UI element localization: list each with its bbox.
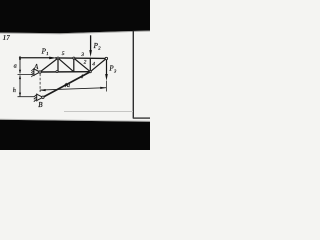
dimension line a (vertical) <box>19 56 21 73</box>
wire: diagonal T1 to B2 <box>58 58 74 72</box>
bottom black band <box>0 120 150 150</box>
node B3 junction <box>89 71 91 73</box>
dimension line 4a with arrowheads <box>40 88 106 90</box>
wire: top chord (T1 to T4) with P1 line extension <box>20 57 50 59</box>
svg-text:A: A <box>33 63 39 71</box>
node T4 <box>105 57 107 59</box>
dimension a (vertical, truss height) and h (A to B drop) <box>18 56 35 97</box>
force P3 arrow with extension to dimension line <box>106 59 108 75</box>
dimension 4a: dashed extension line below A <box>39 74 41 93</box>
svg-text:1: 1 <box>81 74 84 80</box>
paper background <box>0 0 150 150</box>
node B <box>42 96 44 98</box>
svg-text:h: h <box>13 87 16 94</box>
wire: diagonal 1, B to B3 <box>43 72 90 98</box>
wire: bottom chord A to B3 <box>40 71 90 73</box>
table rule horizontal bottom-right <box>133 117 150 118</box>
top black band <box>0 0 150 33</box>
svg-text:4a: 4a <box>64 82 70 89</box>
svg-text:2: 2 <box>84 59 87 65</box>
node A <box>39 71 41 73</box>
wire: diagonal A to T1 <box>40 58 58 72</box>
wire: diagonal 2, T2 to B3 <box>74 58 91 72</box>
support A (pin on left wall) <box>31 68 40 77</box>
dimension line h (vertical) <box>19 75 21 96</box>
extension line mid at bottom chord level <box>18 73 34 75</box>
force P1 arrow <box>49 57 57 60</box>
wire: vertical member at T1 <box>57 58 59 72</box>
svg-text:5: 5 <box>62 51 65 57</box>
svg-text:4: 4 <box>92 60 95 67</box>
node T2 <box>73 57 75 59</box>
wire: vertical member at T2 <box>73 58 75 72</box>
svg-text:a: a <box>14 63 17 70</box>
node B1 <box>56 71 58 73</box>
extension line at B level <box>18 96 35 98</box>
faint cell border line <box>64 111 133 112</box>
support B (pin on left wall) <box>34 94 43 102</box>
svg-text:1: 1 <box>46 51 48 56</box>
force P2 arrow <box>90 35 92 51</box>
svg-text:3: 3 <box>80 52 84 58</box>
table rule vertical right <box>133 31 134 119</box>
wire: vertical member 4 at T3 <box>89 58 91 71</box>
wire: diagonal B3 to T4 <box>90 59 106 72</box>
svg-text:17: 17 <box>3 34 11 42</box>
dimension arrowheads <box>19 56 21 60</box>
node T1 <box>57 57 59 59</box>
svg-text:B: B <box>38 101 43 109</box>
